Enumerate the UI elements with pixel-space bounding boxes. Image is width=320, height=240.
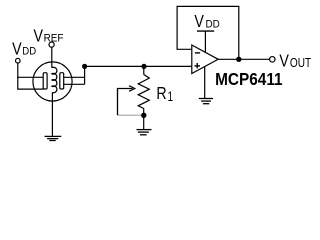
svg-text:REF: REF (44, 32, 64, 45)
svg-text:V: V (194, 12, 204, 32)
svg-text:DD: DD (22, 46, 36, 58)
svg-text:1: 1 (168, 88, 174, 104)
svg-text:MCP6411: MCP6411 (215, 69, 283, 89)
svg-text:V: V (12, 39, 22, 59)
svg-text:DD: DD (206, 18, 221, 31)
svg-text:R: R (156, 84, 166, 104)
svg-text:OUT: OUT (290, 57, 311, 70)
svg-text:V: V (34, 26, 44, 46)
